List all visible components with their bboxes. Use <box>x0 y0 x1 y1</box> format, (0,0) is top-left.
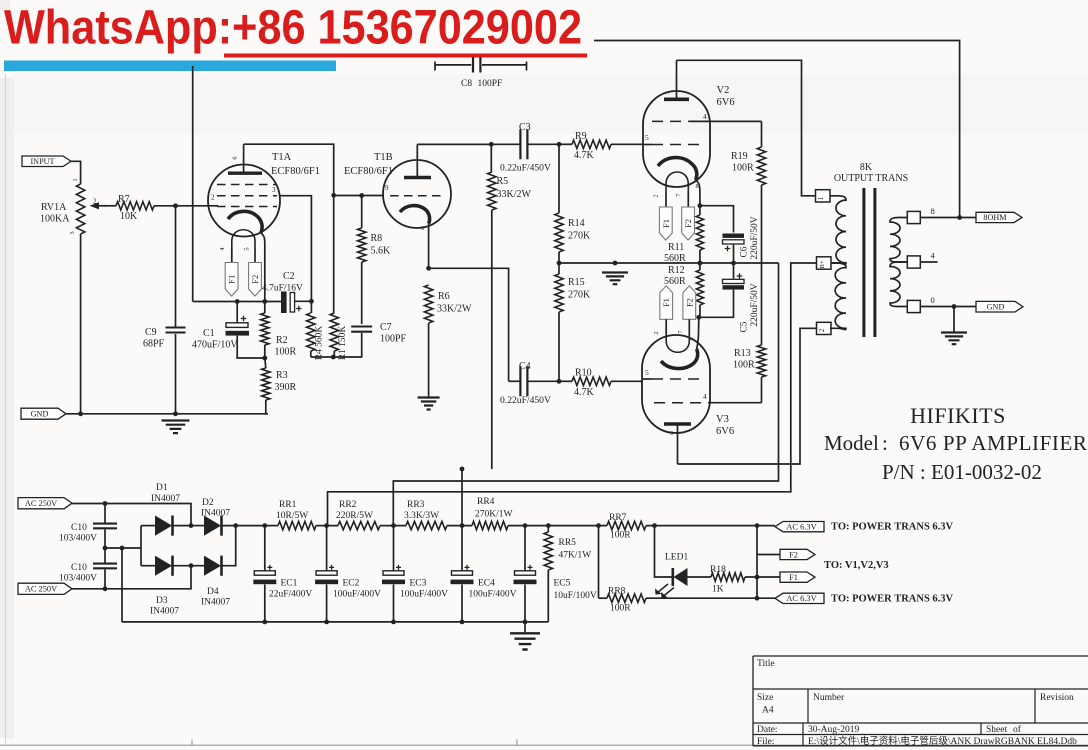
transformer primary winding lower <box>830 263 846 330</box>
resistor R15 <box>558 263 560 274</box>
svg-text:270K: 270K <box>568 290 591 301</box>
wire bridge left leg <box>140 526 142 566</box>
svg-text:100R: 100R <box>733 360 755 371</box>
resistor R18 1K <box>688 576 712 578</box>
svg-text:100KA: 100KA <box>40 214 70 225</box>
wire cathode node to C6 <box>700 206 734 233</box>
secondary tap 0 box <box>907 300 920 312</box>
junction feedback/8ohm <box>957 215 962 220</box>
svg-text:C6: C6 <box>740 246 750 257</box>
heater box F1 of V3 <box>660 286 673 320</box>
svg-text:R1 150K: R1 150K <box>338 326 348 361</box>
svg-text:RR3: RR3 <box>407 500 425 510</box>
svg-text:AC 250V: AC 250V <box>25 499 57 508</box>
capacitor C7 <box>351 327 372 332</box>
svg-text:RR4: RR4 <box>477 497 495 507</box>
V3 screen grid dashed pin 4 <box>654 402 709 404</box>
wire R10 to V3 grid <box>643 378 652 380</box>
triode T1B <box>383 160 451 228</box>
svg-text:6V6: 6V6 <box>716 426 734 437</box>
transformer primary winding upper <box>830 196 846 265</box>
junction bottom bus to B+ drop <box>331 355 336 360</box>
svg-text:4.7K: 4.7K <box>574 150 595 161</box>
svg-text:RR2: RR2 <box>339 500 357 510</box>
T1B cathode lead pin 8 <box>428 224 430 269</box>
T1A grid dashed rows <box>217 185 277 207</box>
resistor R4 <box>310 301 312 313</box>
wire V2 screen to R19 <box>690 120 762 122</box>
V2 plate lead <box>676 60 678 99</box>
resistor RR1 10R/5W <box>278 521 316 529</box>
T1A pin 2 lead <box>209 205 218 207</box>
V2 cathode arc <box>658 157 697 180</box>
svg-text:HIFIKITS: HIFIKITS <box>910 403 1006 428</box>
svg-text:8: 8 <box>931 206 935 216</box>
svg-text:ECF80/6F1: ECF80/6F1 <box>271 166 320 177</box>
resistor RR3 3.3K/3W <box>406 521 447 529</box>
heater box F1 of V2 <box>665 191 667 207</box>
pentode V2 6V6 <box>643 91 710 187</box>
svg-text:Revision: Revision <box>1040 693 1074 703</box>
svg-text:F1: F1 <box>227 275 237 284</box>
svg-text:R13: R13 <box>734 348 751 359</box>
svg-text:10R/5W: 10R/5W <box>276 511 308 521</box>
svg-text:22uF/400V: 22uF/400V <box>269 590 312 600</box>
svg-text:IN4007: IN4007 <box>150 607 179 617</box>
svg-text:4: 4 <box>703 112 707 121</box>
wire feedback 8ohm to top <box>594 41 960 218</box>
svg-text:T1A: T1A <box>272 152 292 163</box>
svg-text:R5: R5 <box>497 176 509 187</box>
transformer secondary winding lower <box>890 262 907 307</box>
svg-text:220R/5W: 220R/5W <box>336 511 373 521</box>
junction LED feed <box>652 523 657 528</box>
svg-text:C2: C2 <box>283 271 295 282</box>
svg-text:D4: D4 <box>207 587 219 597</box>
svg-text:R3: R3 <box>276 370 288 381</box>
svg-text:F2: F2 <box>684 298 694 307</box>
resistor R19 100R <box>761 121 763 147</box>
svg-text:RR1: RR1 <box>279 500 297 510</box>
junction C3/R14 <box>557 142 562 147</box>
svg-text:AC 6.3V: AC 6.3V <box>786 594 816 603</box>
V2 control grid dashed pin 5 <box>652 144 702 146</box>
T1A cathode lead pin 8 <box>261 233 265 302</box>
ground symbol power supply <box>510 633 540 649</box>
svg-text:D3: D3 <box>156 596 168 606</box>
svg-text:GND: GND <box>987 302 1005 311</box>
svg-text:AC 6.3V: AC 6.3V <box>786 523 816 532</box>
svg-text:3.3K/3W: 3.3K/3W <box>404 511 439 521</box>
svg-text:R19: R19 <box>731 151 748 162</box>
resistor R14 <box>558 144 560 213</box>
svg-text:R15: R15 <box>568 277 585 288</box>
svg-text:270K: 270K <box>568 231 591 242</box>
svg-text:1: 1 <box>817 196 825 200</box>
wire V3 plate to transformer terminal 2 <box>678 328 818 464</box>
wire C2 right to R4 node <box>295 300 312 302</box>
resistor RR7 100R <box>607 521 646 529</box>
svg-text:F1: F1 <box>661 298 671 307</box>
svg-text:560R: 560R <box>664 276 686 287</box>
pentode V3 6V6 <box>642 335 710 433</box>
svg-text:3: 3 <box>272 186 276 194</box>
T1B grid dashed row pin 9 <box>390 195 444 197</box>
node INPUT <box>22 156 71 167</box>
junction EC3/screen tap <box>391 523 396 528</box>
svg-text:100R: 100R <box>275 347 297 358</box>
LED LED1 <box>671 568 674 586</box>
junction RR5 <box>546 523 551 528</box>
junction C6/C5 at ground bus <box>731 261 736 266</box>
junction EC5 <box>523 523 528 528</box>
transformer terminal 2 box <box>817 322 832 334</box>
wire T1B plate to C3/R5 node <box>417 143 491 145</box>
wire tap 4 stub <box>920 261 937 263</box>
svg-text:LED1: LED1 <box>665 553 688 563</box>
junction front bus <box>460 467 465 472</box>
svg-text:C4: C4 <box>519 361 531 372</box>
wire tap 8 to 8OHM <box>920 217 976 219</box>
junction D3/D4 AC input <box>189 563 194 568</box>
junction EC1 rail <box>262 523 267 528</box>
junction R7/C9 <box>173 203 178 208</box>
svg-text:R6: R6 <box>438 291 450 302</box>
svg-text:Title: Title <box>757 659 775 669</box>
svg-text:RR5: RR5 <box>559 538 577 548</box>
svg-text:R10: R10 <box>575 368 592 379</box>
wire grid row to T1B pin 9 <box>334 195 384 197</box>
T1B cathode arc <box>400 206 430 224</box>
wire ground return rail <box>122 621 548 623</box>
svg-text:4.7K: 4.7K <box>574 387 595 398</box>
svg-text:C5: C5 <box>740 321 750 332</box>
junction RV1A/GND <box>78 411 83 416</box>
wire ground rail <box>66 413 268 415</box>
svg-text:A4: A4 <box>762 706 774 716</box>
capacitor EC5 10uF/100V <box>524 526 526 571</box>
junction F-net riser top <box>755 523 760 528</box>
svg-text:6V6: 6V6 <box>717 97 735 108</box>
ground symbol output <box>941 333 967 345</box>
svg-text:P/N : E01-0032-02: P/N : E01-0032-02 <box>882 460 1042 484</box>
capacitor C3 <box>491 143 520 145</box>
ground symbol R6 <box>418 398 440 410</box>
svg-text:AC 250V: AC 250V <box>25 585 57 594</box>
svg-text:IN4007: IN4007 <box>201 509 230 519</box>
wire T1A cathode row <box>193 301 281 303</box>
svg-text:5: 5 <box>645 368 649 377</box>
svg-text::: : <box>882 431 888 455</box>
wire V3 screen to R13 <box>709 402 762 404</box>
svg-text:R18: R18 <box>710 565 726 575</box>
transformer core <box>864 188 875 337</box>
svg-text:C8: C8 <box>461 79 472 89</box>
V3 plate lead <box>677 424 679 464</box>
svg-text:560R: 560R <box>664 253 686 264</box>
svg-text:EC4: EC4 <box>478 579 495 589</box>
svg-text:V3: V3 <box>716 414 729 425</box>
secondary tap 4 box <box>907 256 920 268</box>
svg-text:RR8: RR8 <box>608 587 626 597</box>
page border left <box>5 74 7 745</box>
svg-text:F1: F1 <box>789 573 798 582</box>
capacitor C6 220uF/50V <box>723 234 745 238</box>
svg-text:Date:: Date: <box>757 725 778 735</box>
capacitor EC3 100uF/400V <box>393 526 395 571</box>
resistor RR2 220R/5W <box>316 525 338 527</box>
wire V2 plate to transformer terminal 1 <box>677 60 816 196</box>
svg-text:C3: C3 <box>519 122 531 133</box>
capacitor EC2 100uF/400V <box>326 526 328 571</box>
svg-text:220uF/50V: 220uF/50V <box>750 283 760 326</box>
junction EC3 return <box>391 620 396 625</box>
junction tap0 ground <box>952 304 957 309</box>
svg-text:ECF80/6F1: ECF80/6F1 <box>344 166 393 177</box>
svg-text:WhatsApp:+86 15367029002: WhatsApp:+86 15367029002 <box>4 2 582 55</box>
junction T1A plate line / grid wire <box>331 193 336 198</box>
svg-text:0.22uF/450V: 0.22uF/450V <box>500 163 551 174</box>
svg-text:100uF/400V: 100uF/400V <box>400 590 448 600</box>
svg-text:F2: F2 <box>683 219 693 228</box>
junction mid to ground return <box>120 546 125 551</box>
svg-text:R8: R8 <box>371 233 383 244</box>
junction D4 riser <box>233 523 238 528</box>
wire R9 to V2 grid <box>643 144 652 146</box>
junction RR7/RR8 feed <box>596 523 601 528</box>
node GND <box>21 408 66 419</box>
svg-text:C9: C9 <box>145 327 157 338</box>
svg-text:390R: 390R <box>275 382 297 393</box>
wire cathode to C4 drop <box>429 268 509 381</box>
V2 cathode lead <box>696 180 700 206</box>
junction C2/R4 <box>309 299 314 304</box>
svg-text:Number: Number <box>813 693 845 703</box>
capacitor C10 upper <box>104 504 106 523</box>
svg-text:3: 3 <box>670 431 673 437</box>
svg-text:EC5: EC5 <box>554 579 571 589</box>
svg-text:R2: R2 <box>276 335 288 346</box>
junction EC5 return <box>523 620 528 625</box>
svg-text:5: 5 <box>645 133 649 142</box>
transformer secondary winding upper <box>890 218 907 263</box>
svg-text:47K/1W: 47K/1W <box>559 551 592 561</box>
diode D1 IN4007 <box>141 525 155 527</box>
capacitor C4 <box>509 380 520 382</box>
svg-text:2: 2 <box>211 194 215 202</box>
svg-text:68PF: 68PF <box>143 339 165 350</box>
junction ground stem <box>613 261 618 266</box>
wire cathode/ground bus y263 <box>559 262 779 264</box>
resistor R8 <box>361 196 363 229</box>
svg-text:GND: GND <box>31 409 49 418</box>
junction AC2/C10b <box>103 586 108 591</box>
junction C4/R15 <box>557 379 562 384</box>
svg-text:RV1A: RV1A <box>41 202 67 213</box>
heater box F1 of T1A <box>231 247 233 263</box>
diode D4 IN4007 <box>204 556 221 576</box>
wire input to RV1A <box>71 161 81 184</box>
wire AC2 to bridge <box>72 566 191 589</box>
V2 screen grid dashed pin 4 <box>652 120 690 122</box>
svg-text:C7: C7 <box>380 322 392 333</box>
wire from top rail down x=192.7 <box>192 66 194 302</box>
capacitor C10 lower <box>104 548 106 563</box>
svg-text:R12: R12 <box>668 265 685 276</box>
svg-text:C10: C10 <box>71 563 87 573</box>
svg-text:TO: V1,V2,V3: TO: V1,V2,V3 <box>824 560 889 571</box>
svg-text:D1: D1 <box>156 483 168 493</box>
svg-text:100PF: 100PF <box>380 334 407 345</box>
svg-text:470uF/10V: 470uF/10V <box>192 340 238 351</box>
resistor R9 <box>559 143 572 145</box>
ground symbol center <box>602 273 628 285</box>
resistor R6 <box>424 285 432 323</box>
node GND output <box>976 301 1023 312</box>
T1A heater arch <box>232 230 255 247</box>
wire ground bus to screen node <box>393 263 778 526</box>
junction C10 mid <box>103 546 108 551</box>
junction EC4/front tap <box>460 523 465 528</box>
svg-text:TO: POWER TRANS 6.3V: TO: POWER TRANS 6.3V <box>831 594 954 605</box>
svg-text:C1: C1 <box>203 328 215 339</box>
junction R14/R15 <box>557 261 562 266</box>
wire F-net riser <box>756 526 758 599</box>
resistor R7 <box>104 205 116 207</box>
svg-text:R7: R7 <box>118 194 130 205</box>
svg-text:IN4007: IN4007 <box>151 494 180 504</box>
V3 heater arch <box>666 335 689 353</box>
svg-text:0: 0 <box>931 295 935 305</box>
svg-text:R4 560K: R4 560K <box>315 326 325 361</box>
svg-text:D2: D2 <box>202 498 214 508</box>
junction EC1 return <box>262 620 267 625</box>
T1B plate lead <box>416 144 418 177</box>
junction cathode/R2 <box>262 299 267 304</box>
svg-text:8: 8 <box>421 226 424 232</box>
node 8OHM <box>976 212 1022 222</box>
svg-text:2: 2 <box>818 328 826 332</box>
svg-text:Size: Size <box>757 693 773 703</box>
svg-text:9: 9 <box>385 184 389 192</box>
svg-text:OUTPUT TRANS: OUTPUT TRANS <box>834 173 908 184</box>
wire RV1A to GND rail <box>80 234 82 414</box>
svg-text:103/400V: 103/400V <box>59 574 97 584</box>
resistor R3 <box>262 368 270 400</box>
svg-text:3: 3 <box>69 231 76 234</box>
V3 cathode lead <box>697 317 699 349</box>
svg-text:IN4007: IN4007 <box>201 598 230 608</box>
V2 heater arch <box>666 172 688 191</box>
node AC 250V lower <box>18 583 72 594</box>
V3 plate bar <box>664 422 691 426</box>
resistor R10 <box>559 380 572 382</box>
svg-text:4.7uF/16V: 4.7uF/16V <box>262 284 303 294</box>
svg-text:F2: F2 <box>250 275 260 284</box>
svg-text:220uF/50V: 220uF/50V <box>750 216 760 259</box>
svg-text:4: 4 <box>703 392 707 401</box>
junction EC2/B+ tap <box>324 523 329 528</box>
wire tap 0 to GND <box>920 306 976 308</box>
svg-text:3: 3 <box>664 91 671 94</box>
triode-pentode T1A <box>208 165 280 237</box>
junction EC2 return <box>324 620 329 625</box>
banner blue bar <box>4 61 336 72</box>
junction RR8/F riser <box>755 596 760 601</box>
svg-text:File:: File: <box>757 737 774 747</box>
svg-text:10K: 10K <box>120 211 138 222</box>
svg-text:30-Aug-2019: 30-Aug-2019 <box>808 725 859 735</box>
resistor R5 <box>490 144 492 172</box>
potentiometer RV1A <box>76 184 84 234</box>
diode D3 IN4007 <box>141 565 155 567</box>
junction C9/GND <box>173 411 178 416</box>
junction R18/F1 <box>755 575 760 580</box>
svg-text:100uF/400V: 100uF/400V <box>333 590 381 600</box>
resistor RR4 270K/1W <box>472 521 508 529</box>
svg-text:5: 5 <box>244 247 251 250</box>
resistor R1 <box>333 195 335 313</box>
svg-text:EC1: EC1 <box>281 579 298 589</box>
svg-text:8: 8 <box>696 184 699 190</box>
svg-text:Model: Model <box>824 431 879 455</box>
resistor R12 560R <box>699 263 701 270</box>
resistor RR5 47K/1W <box>547 526 549 532</box>
node F1 <box>780 572 815 582</box>
svg-text:33K/2W: 33K/2W <box>497 189 532 200</box>
svg-text:F2: F2 <box>789 550 798 559</box>
svg-text:270K/1W: 270K/1W <box>475 510 513 520</box>
wire C10 midpoint <box>104 547 141 549</box>
junction EC4 return <box>460 620 465 625</box>
svg-text:8OHM: 8OHM <box>983 213 1007 222</box>
capacitor EC1 22uF/400V <box>264 526 266 571</box>
node F2 <box>757 554 780 556</box>
transformer terminal 1 box <box>816 190 831 202</box>
node AC 6.3V upper <box>775 522 824 532</box>
svg-text:C10: C10 <box>71 523 87 533</box>
svg-text:100R: 100R <box>610 531 631 541</box>
svg-text:100uF/400V: 100uF/400V <box>469 590 517 600</box>
T1B plate bar <box>404 176 431 179</box>
diode D2 IN4007 <box>191 525 204 527</box>
svg-text:RR7: RR7 <box>609 513 627 523</box>
junction D1/D2 AC input <box>189 523 194 528</box>
junction R8 top <box>359 193 364 198</box>
T1A plate bar <box>228 171 262 174</box>
svg-text:T1B: T1B <box>374 152 393 163</box>
svg-text:5.6K: 5.6K <box>371 246 392 257</box>
capacitor EC4 100uF/400V <box>461 526 463 571</box>
wire T1A pin3 to C2 node <box>280 196 311 302</box>
svg-text:8K: 8K <box>860 162 873 173</box>
junction R11/R12 at ground bus <box>698 261 703 266</box>
svg-text:EC3: EC3 <box>410 579 427 589</box>
wire tap0 ground stem <box>953 307 955 333</box>
resistor RR8 100R <box>599 597 608 599</box>
capacitor C1 <box>236 302 238 323</box>
V3 cathode arc <box>661 349 698 369</box>
node AC 6.3V lower <box>775 593 824 603</box>
svg-text:100R: 100R <box>610 604 631 614</box>
svg-text:10uF/100V: 10uF/100V <box>554 591 597 601</box>
capacitor C9 <box>175 206 177 327</box>
svg-text:2: 2 <box>93 198 97 206</box>
resistor R11 560R <box>699 206 701 215</box>
junction AC1/C10a <box>103 501 108 506</box>
svg-text:TO: POWER TRANS 6.3V: TO: POWER TRANS 6.3V <box>831 522 954 533</box>
node AC 250V upper <box>18 498 72 509</box>
